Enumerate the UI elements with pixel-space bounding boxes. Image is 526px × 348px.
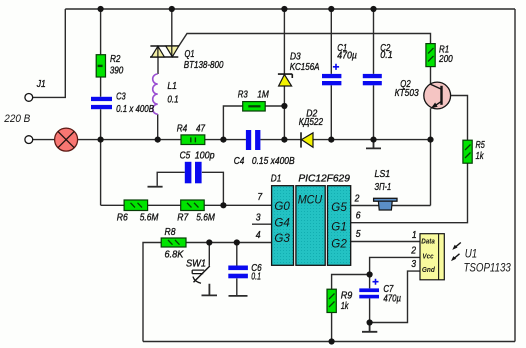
junction mains Q2 emitter: [427, 137, 433, 143]
pin number 7: [257, 191, 263, 203]
label R4: [177, 123, 188, 135]
junction top rail C2: [370, 6, 376, 12]
label pin G0: [274, 199, 290, 213]
label R1: [439, 43, 449, 55]
svg-text:ЗП-1: ЗП-1: [375, 181, 392, 193]
inductor L1: [153, 74, 158, 114]
pin number 3: [256, 211, 261, 223]
op-amp D1 MCU box: [272, 186, 351, 266]
wire pin G2 to U1 Data: [351, 241, 420, 243]
resistor R4: [181, 135, 205, 145]
diode D2: [301, 132, 313, 147]
label LS1: [375, 168, 391, 180]
label Q1 type: [184, 59, 224, 71]
junction Vcc R9: [367, 271, 373, 277]
junction top rail C1: [328, 6, 334, 12]
svg-text:R7: R7: [177, 212, 189, 224]
wire SW1 upper: [208, 243, 210, 266]
svg-text:200: 200: [438, 53, 453, 65]
label U1: [465, 247, 478, 261]
wire mains row: [101, 139, 431, 141]
label C5 value: [195, 150, 215, 162]
svg-text:G1: G1: [331, 220, 347, 234]
capacitor C7: [359, 279, 379, 299]
label D3 type: [290, 61, 320, 73]
piezo LS1: [374, 198, 397, 210]
svg-text:5: 5: [356, 228, 361, 240]
svg-text:TSOP1133: TSOP1133: [464, 260, 512, 274]
junction mains R4-C4: [220, 137, 226, 143]
svg-text:G4: G4: [274, 216, 290, 230]
capacitor C5: [185, 162, 202, 184]
label R3 value: [257, 89, 269, 101]
label Data pin: [421, 239, 435, 246]
junction C7 gnd: [367, 319, 373, 325]
label C7 value: [383, 293, 401, 305]
wire SW1 lower and ground: [202, 284, 218, 296]
capacitor C3: [91, 97, 112, 109]
wire R6 row: [101, 204, 272, 206]
label SW1: [186, 257, 206, 269]
svg-text:LS1: LS1: [375, 168, 391, 180]
svg-text:0.1 x 400В: 0.1 x 400В: [116, 103, 154, 115]
svg-text:4: 4: [256, 229, 261, 241]
label C1 value: [337, 50, 357, 62]
svg-text:1M: 1M: [257, 89, 269, 101]
pin number 1 U1: [412, 229, 417, 241]
resistor R9: [327, 289, 336, 312]
capacitor C6: [228, 266, 248, 279]
svg-text:R3: R3: [238, 89, 248, 101]
label R9: [341, 289, 353, 301]
label C6 value: [251, 271, 261, 283]
svg-text:MCU: MCU: [298, 192, 323, 206]
label D1: [271, 173, 282, 185]
svg-text:0.1: 0.1: [251, 271, 261, 283]
pin number 6 G1: [356, 209, 361, 221]
label Vcc pin: [422, 253, 433, 260]
svg-text:U1: U1: [465, 247, 478, 261]
label D3: [290, 50, 301, 62]
lamp EL1: [55, 128, 78, 151]
svg-text:R8: R8: [165, 226, 176, 238]
junction mains C3: [98, 137, 104, 143]
svg-text:R2: R2: [110, 53, 121, 65]
svg-text:KC156A: KC156A: [290, 61, 320, 73]
pin number 5 G2: [356, 228, 361, 240]
svg-text:КД522: КД522: [299, 116, 323, 128]
wire Q2 emitter column: [430, 108, 432, 205]
wire R3 branch: [223, 106, 284, 140]
label Q1: [185, 48, 195, 60]
pin number 2 U1: [410, 244, 416, 256]
resistor R6: [124, 200, 148, 211]
ground at C5: [148, 186, 163, 188]
svg-text:Q1: Q1: [185, 48, 195, 60]
wire C5 branch: [157, 172, 223, 205]
svg-text:220 В: 220 В: [3, 113, 30, 125]
wire right edge: [514, 9, 516, 342]
junction top rail D3: [281, 6, 287, 12]
svg-text:R4: R4: [177, 123, 188, 135]
IR arrow lower: [451, 254, 460, 261]
label LS1 type: [375, 181, 392, 193]
label C2 value: [380, 49, 393, 61]
junction mains C2: [370, 137, 376, 143]
svg-text:5.6M: 5.6M: [196, 212, 215, 224]
connector J1 terminal upper: [25, 94, 33, 102]
label U1 type: [464, 260, 512, 274]
wire bottom rail: [143, 341, 515, 343]
junction mains C1: [328, 137, 334, 143]
label R2: [110, 53, 121, 65]
label R7 value: [196, 212, 215, 224]
svg-text:47: 47: [196, 123, 206, 135]
label C3 value: [116, 103, 154, 115]
svg-text:1: 1: [412, 229, 417, 241]
junction node G0: [220, 202, 226, 208]
svg-text:Vcc: Vcc: [422, 253, 433, 260]
IR receiver U1: [420, 234, 444, 280]
label pin G2: [331, 236, 347, 250]
svg-text:G3: G3: [274, 231, 290, 245]
svg-text:G5: G5: [331, 200, 347, 214]
svg-text:1k: 1k: [476, 150, 485, 162]
svg-text:6.8K: 6.8K: [165, 249, 185, 261]
svg-text:Gnd: Gnd: [422, 267, 436, 274]
label L1: [167, 80, 177, 92]
label R8 value: [165, 249, 185, 261]
capacitor C4: [246, 130, 261, 150]
switch SW1: [192, 266, 210, 283]
junction top rail R2: [98, 6, 104, 12]
svg-text:390: 390: [110, 65, 124, 77]
label 220 В: [3, 113, 30, 125]
resistor R7: [181, 200, 205, 211]
label R3: [238, 89, 248, 101]
label R6 value: [140, 212, 159, 224]
resistor R5: [463, 140, 472, 163]
junction mains L1: [155, 137, 161, 143]
label C7: [383, 283, 394, 295]
svg-text:J1: J1: [36, 78, 46, 90]
svg-text:2: 2: [354, 192, 360, 204]
label C3: [116, 91, 126, 103]
svg-text:470µ: 470µ: [337, 50, 357, 62]
label pin G1: [331, 220, 347, 234]
svg-text:D1: D1: [271, 173, 282, 185]
label L1 value: [167, 93, 178, 105]
svg-text:КТ503: КТ503: [395, 87, 419, 99]
label Q2: [400, 78, 411, 90]
junction R3 D3: [281, 103, 287, 109]
wire Q2 base to R5: [442, 96, 468, 141]
wire Q1 to L1: [157, 57, 159, 74]
resistor R3: [243, 102, 266, 111]
label C5: [180, 150, 191, 162]
label D2 type: [299, 116, 323, 128]
label pin G4: [274, 216, 290, 230]
wire gate Q1 to R1: [179, 34, 431, 47]
zener D3: [278, 74, 292, 86]
svg-text:G0: G0: [274, 199, 290, 213]
wire top rail: [65, 8, 515, 10]
junction R9 bottom: [329, 338, 335, 344]
label MCU: [298, 192, 323, 206]
label C4: [234, 155, 245, 167]
ground at C7: [362, 323, 377, 332]
svg-text:L1: L1: [167, 80, 177, 92]
pin number 3 U1: [411, 258, 416, 270]
label pin G5: [331, 200, 347, 214]
connector J1 terminal lower: [25, 136, 33, 144]
ground at C6: [229, 295, 248, 297]
resistor R8: [161, 238, 186, 247]
wire R9 branch: [332, 275, 370, 342]
junction top rail Q1: [169, 6, 175, 12]
svg-text:R6: R6: [117, 212, 128, 224]
label R2 value: [110, 65, 124, 77]
svg-text:PIC12F629: PIC12F629: [298, 173, 350, 185]
svg-text:C5: C5: [180, 150, 191, 162]
wire D3 column: [283, 9, 285, 140]
wire J1 upper lead: [33, 9, 66, 97]
wire U1 Gnd: [370, 271, 420, 322]
resistor R1: [426, 44, 435, 67]
label J1: [36, 78, 46, 90]
wire R5 to pin G1: [351, 163, 468, 223]
wire R2 column: [100, 9, 102, 205]
wire L1 to mains: [157, 114, 159, 139]
wire R1 to Q2: [430, 67, 432, 85]
pin number 2 G5: [354, 192, 360, 204]
label R4 value: [196, 123, 206, 135]
svg-text:1k: 1k: [341, 300, 349, 312]
label PIC12F629: [298, 173, 350, 185]
capacitor C2: [363, 74, 382, 85]
triac Q1: [150, 46, 179, 57]
svg-text:C3: C3: [116, 91, 126, 103]
label C1: [337, 42, 347, 54]
svg-text:0.15 x400В: 0.15 x400В: [252, 155, 295, 167]
wire pin G4 stub: [252, 223, 272, 225]
svg-text:BT138-800: BT138-800: [184, 59, 224, 71]
junction mains D3: [281, 137, 287, 143]
label R1 value: [438, 53, 453, 65]
label Gnd pin: [422, 267, 436, 274]
svg-text:3: 3: [411, 258, 416, 270]
wire C6 branch: [236, 243, 238, 296]
svg-text:5.6M: 5.6M: [140, 212, 159, 224]
wire J1 lower lead: [33, 139, 55, 141]
transistor Q2: [424, 82, 451, 109]
svg-text:Data: Data: [421, 239, 435, 246]
svg-text:100p: 100p: [195, 150, 215, 162]
label R5: [476, 139, 485, 151]
IR arrow upper: [452, 243, 461, 250]
label R5 value: [476, 150, 485, 162]
wire R8 row: [143, 243, 272, 342]
label C6: [251, 262, 262, 274]
svg-text:2: 2: [410, 244, 416, 256]
wire C7 lower: [369, 298, 371, 322]
svg-text:0.1: 0.1: [167, 93, 178, 105]
wire Q1 column: [171, 9, 173, 46]
wire U1 Vcc: [370, 257, 420, 288]
junction SW1: [206, 239, 212, 245]
wire C2 column: [373, 9, 375, 140]
svg-text:G2: G2: [331, 236, 347, 250]
svg-text:3: 3: [256, 211, 261, 223]
svg-text:C4: C4: [234, 155, 245, 167]
label R8: [165, 226, 176, 238]
label C2: [380, 42, 390, 54]
wire LS1 row: [351, 205, 431, 207]
svg-text:470µ: 470µ: [383, 293, 401, 305]
ground at C2: [366, 140, 381, 149]
wire C1 column: [330, 9, 332, 140]
resistor R2: [96, 55, 105, 77]
label pin G3: [274, 231, 290, 245]
label R6: [117, 212, 128, 224]
svg-text:0.1: 0.1: [380, 49, 393, 61]
capacitor C1: [322, 64, 341, 86]
svg-text:SW1: SW1: [186, 257, 206, 269]
label R9 value: [341, 300, 349, 312]
svg-text:6: 6: [356, 209, 361, 221]
label C4 value: [252, 155, 295, 167]
label Q2 type: [395, 87, 419, 99]
label R7: [177, 212, 189, 224]
junction C6: [234, 239, 240, 245]
pin number 4: [256, 229, 261, 241]
label D2: [306, 108, 317, 120]
wire lamp to node: [78, 139, 101, 141]
